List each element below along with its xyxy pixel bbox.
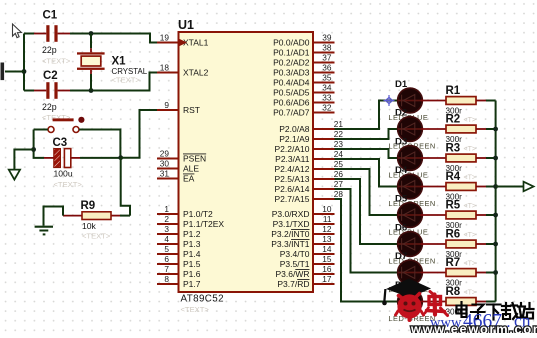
svg-text:D2: D2 xyxy=(395,107,407,118)
wire P2.7 to D8 xyxy=(335,199,398,302)
svg-text:P2.1/A9: P2.1/A9 xyxy=(279,134,310,144)
svg-text:P2.2/A10: P2.2/A10 xyxy=(275,144,310,154)
wire xyxy=(121,158,130,216)
svg-text:P2.4/A12: P2.4/A12 xyxy=(275,164,310,174)
svg-text:P1.6: P1.6 xyxy=(183,269,201,279)
svg-text:1: 1 xyxy=(164,204,169,214)
svg-text:13: 13 xyxy=(322,234,332,244)
output arrow xyxy=(524,182,534,192)
node junction C2/X1 xyxy=(89,88,94,93)
pin P0.7/AD7 (32) xyxy=(273,103,334,118)
LED D4 xyxy=(389,165,447,208)
ic U1 AT89C52 body xyxy=(178,18,313,314)
node junction left rail xyxy=(22,69,27,74)
svg-text:P3.7/RD: P3.7/RD xyxy=(277,279,309,289)
pin P0.2/AD2 (37) xyxy=(273,53,334,68)
svg-text:R6: R6 xyxy=(446,229,461,241)
svg-text:D4: D4 xyxy=(395,165,408,176)
svg-text:P0.0/AD0: P0.0/AD0 xyxy=(273,38,310,48)
svg-text:16: 16 xyxy=(322,264,332,274)
svg-text:P2.5/A13: P2.5/A13 xyxy=(275,174,310,184)
svg-text:RST: RST xyxy=(183,105,200,115)
svg-text:P0.6/AD6: P0.6/AD6 xyxy=(273,98,310,108)
wire xyxy=(34,130,44,158)
svg-text:P0.1/AD1: P0.1/AD1 xyxy=(273,48,310,58)
svg-text:37: 37 xyxy=(322,53,332,63)
pin P0.3/AD3 (36) xyxy=(273,63,334,78)
wire xyxy=(486,214,496,216)
svg-text:P3.3/INT1: P3.3/INT1 xyxy=(271,239,310,249)
svg-text:P0.4/AD4: P0.4/AD4 xyxy=(273,78,310,88)
svg-text:14: 14 xyxy=(322,244,332,254)
svg-text:9: 9 xyxy=(164,100,169,110)
svg-text:17: 17 xyxy=(322,274,332,284)
crystal X1 xyxy=(77,34,148,91)
svg-text:XTAL2: XTAL2 xyxy=(183,68,209,78)
svg-text:P2.6/A14: P2.6/A14 xyxy=(275,184,310,194)
pin P3.5/T1 (15) xyxy=(280,254,335,269)
capacitor C3 xyxy=(44,137,82,189)
wire xyxy=(120,215,130,217)
svg-text:5: 5 xyxy=(164,244,169,254)
svg-text:<T>: <T> xyxy=(464,175,476,182)
svg-text:ALE: ALE xyxy=(183,164,199,174)
svg-text:12: 12 xyxy=(322,224,332,234)
pin RST (9) xyxy=(157,100,200,115)
wire xyxy=(24,90,34,92)
svg-text:www.eeworm.com: www.eeworm.com xyxy=(410,322,537,334)
capacitor C2 xyxy=(34,70,71,122)
svg-text:R5: R5 xyxy=(446,200,461,212)
pin P3.6/WR (16) xyxy=(275,264,334,279)
pin XTAL1 (19) xyxy=(157,33,209,48)
pin P1.2 (3) xyxy=(157,224,201,239)
svg-text:22p: 22p xyxy=(42,45,57,55)
wire xyxy=(79,130,120,157)
svg-text:D5: D5 xyxy=(395,193,408,204)
svg-text:22p: 22p xyxy=(42,102,57,112)
LED D3 xyxy=(389,136,447,179)
wire P2.0 to D1 xyxy=(335,101,398,130)
svg-text:R7: R7 xyxy=(446,257,461,269)
node junction bus xyxy=(493,213,498,218)
mouse cursor xyxy=(13,24,22,38)
watermark url eeworm xyxy=(410,322,537,337)
pin P2.2/A10 (23) xyxy=(275,139,344,154)
svg-text:P3.4/T0: P3.4/T0 xyxy=(280,249,310,259)
wire xyxy=(486,301,496,303)
svg-text:28: 28 xyxy=(334,189,344,199)
node junction bus xyxy=(493,184,498,189)
svg-text:36: 36 xyxy=(322,63,332,73)
svg-text:P1.7: P1.7 xyxy=(183,279,201,289)
wire xyxy=(34,129,48,131)
svg-text:P3.2/INT0: P3.2/INT0 xyxy=(271,229,310,239)
pin P1.4 (5) xyxy=(157,244,201,259)
svg-text:11: 11 xyxy=(323,214,332,224)
resistor R7 xyxy=(446,257,487,288)
watermark bug glyph 2 xyxy=(425,292,448,316)
svg-text:P0.7/AD7: P0.7/AD7 xyxy=(273,108,310,118)
svg-text:4: 4 xyxy=(164,234,169,244)
svg-text:<TEXT>: <TEXT> xyxy=(112,76,141,85)
push button xyxy=(48,117,85,133)
svg-text:D1: D1 xyxy=(395,79,408,90)
wire P2.3 to D4 xyxy=(335,159,398,187)
svg-text:P0.2/AD2: P0.2/AD2 xyxy=(273,58,310,68)
wire xyxy=(5,71,24,73)
svg-text:P2.0/A8: P2.0/A8 xyxy=(279,124,310,134)
node marker (blue origin cross) xyxy=(384,95,395,106)
resistor R6 xyxy=(446,229,487,260)
svg-text:33: 33 xyxy=(322,93,332,103)
pin P1.1/T2EX (2) xyxy=(157,214,224,229)
node junction RST xyxy=(118,155,123,160)
svg-text:21: 21 xyxy=(334,119,344,129)
svg-text:R8: R8 xyxy=(446,286,461,298)
svg-text:24: 24 xyxy=(334,149,344,159)
pin P2.7/A15 (28) xyxy=(275,189,344,204)
node junction bus xyxy=(493,242,498,247)
svg-text:3: 3 xyxy=(164,224,169,234)
svg-text:10k: 10k xyxy=(82,221,97,231)
pin P0.1/AD1 (38) xyxy=(273,43,334,58)
node junction C1/X1 xyxy=(89,31,94,36)
svg-text:26: 26 xyxy=(334,169,344,179)
svg-text:P1.3: P1.3 xyxy=(183,239,201,249)
svg-text:19: 19 xyxy=(160,33,170,43)
resistor R8 xyxy=(446,286,487,317)
svg-text:P3.6/WR: P3.6/WR xyxy=(275,269,309,279)
wire P2.5 to D6 xyxy=(335,179,398,244)
wire xyxy=(486,243,496,245)
svg-text:P3.5/T1: P3.5/T1 xyxy=(280,259,310,269)
pin XTAL2 (18) xyxy=(157,63,209,78)
svg-text:<T>: <T> xyxy=(464,117,476,124)
svg-text:38: 38 xyxy=(322,43,332,53)
svg-text:P1.4: P1.4 xyxy=(183,249,201,259)
svg-text:PSEN: PSEN xyxy=(183,154,206,164)
svg-text:U1: U1 xyxy=(178,18,194,32)
pin P2.1/A9 (22) xyxy=(279,129,343,144)
svg-text:P1.2: P1.2 xyxy=(183,229,201,239)
svg-text:15: 15 xyxy=(322,254,332,264)
wire xyxy=(24,33,34,35)
svg-text:32: 32 xyxy=(322,103,332,113)
svg-text:<T>: <T> xyxy=(464,290,476,297)
svg-text:EA: EA xyxy=(183,174,195,184)
pin EA (31) xyxy=(157,169,195,184)
pin P2.3/A11 (24) xyxy=(275,149,343,164)
node junction bus xyxy=(493,127,498,132)
svg-text:34: 34 xyxy=(322,83,332,93)
LED D5 xyxy=(389,193,447,236)
pin P0.0/AD0 (39) xyxy=(273,33,334,48)
wire xyxy=(14,150,33,170)
resistor R4 xyxy=(446,171,487,202)
edge component (clipped) xyxy=(1,63,5,81)
resistor R3 xyxy=(446,143,487,174)
wire P2.6 to D7 xyxy=(335,189,398,273)
svg-text:R9: R9 xyxy=(81,200,96,212)
pin P3.7/RD (17) xyxy=(277,274,334,289)
pin P0.5/AD5 (34) xyxy=(273,83,334,98)
pin P3.1/TXD (11) xyxy=(273,214,335,229)
pin P1.6 (7) xyxy=(157,264,201,279)
svg-text:P0.5/AD5: P0.5/AD5 xyxy=(273,88,310,98)
watermark graduation cap xyxy=(382,279,431,306)
svg-text:39: 39 xyxy=(322,33,332,43)
pin P3.3/INT1 (13) xyxy=(271,234,334,249)
svg-text:18: 18 xyxy=(160,63,170,73)
svg-text:<T>: <T> xyxy=(464,146,476,153)
wire xyxy=(23,34,25,91)
pin P1.3 (4) xyxy=(157,234,201,249)
svg-text:<T>: <T> xyxy=(464,261,476,268)
wire xyxy=(70,34,157,43)
pin P3.4/T0 (14) xyxy=(280,244,335,259)
svg-text:C3: C3 xyxy=(53,137,68,149)
pin P1.0/T2 (1) xyxy=(157,204,213,219)
wire P2.2 to D3 xyxy=(335,149,398,158)
resistor R2 xyxy=(446,114,487,145)
svg-text:R3: R3 xyxy=(446,143,461,155)
LED D1 xyxy=(389,79,447,122)
svg-text:27: 27 xyxy=(334,179,344,189)
svg-text:<T>: <T> xyxy=(464,232,476,239)
svg-text:C2: C2 xyxy=(43,70,58,82)
svg-text:29: 29 xyxy=(160,149,170,159)
svg-text:R2: R2 xyxy=(446,114,461,126)
svg-text:P3.1/TXD: P3.1/TXD xyxy=(273,219,310,229)
svg-text:22: 22 xyxy=(334,129,344,139)
svg-text:R4: R4 xyxy=(446,171,461,183)
ground xyxy=(9,170,20,180)
watermark url 4667 xyxy=(430,311,531,333)
LED D7 xyxy=(389,251,447,294)
wire xyxy=(486,272,496,274)
pin P2.0/A8 (21) xyxy=(279,119,343,134)
svg-text:7: 7 xyxy=(164,264,169,274)
pin P0.6/AD6 (33) xyxy=(273,93,334,108)
capacitor C1 xyxy=(34,10,71,66)
svg-text:P2.7/A15: P2.7/A15 xyxy=(275,194,310,204)
svg-text:AT89C52: AT89C52 xyxy=(181,294,224,305)
pin P2.5/A13 (26) xyxy=(275,169,344,184)
node junction bus xyxy=(493,156,498,161)
svg-text:D3: D3 xyxy=(395,136,407,147)
svg-text:100u: 100u xyxy=(54,169,73,179)
wire xyxy=(486,186,496,188)
resistor R1 xyxy=(446,85,487,116)
node junction gnd branch xyxy=(31,147,36,152)
svg-text:P1.1/T2EX: P1.1/T2EX xyxy=(183,219,224,229)
wire xyxy=(80,157,121,159)
watermark text dianzi xiazaizhan xyxy=(457,302,534,320)
svg-text:P1.0/T2: P1.0/T2 xyxy=(183,209,213,219)
wire to output arrow xyxy=(496,186,524,188)
svg-text:10: 10 xyxy=(322,204,332,214)
svg-text:CRYSTAL: CRYSTAL xyxy=(112,67,148,76)
svg-text:6: 6 xyxy=(164,254,169,264)
ground xyxy=(35,227,53,235)
wire xyxy=(486,100,496,102)
svg-text:R1: R1 xyxy=(446,85,461,97)
resistor R5 xyxy=(446,200,487,231)
watermark bug glyph 1 xyxy=(396,294,424,321)
svg-text:P3.0/RXD: P3.0/RXD xyxy=(272,209,310,219)
pin P2.6/A14 (27) xyxy=(275,179,344,194)
pin ALE (30) xyxy=(157,159,199,174)
pin P1.5 (6) xyxy=(157,254,201,269)
pin P1.7 (8) xyxy=(157,274,201,289)
svg-text:<TEXT>: <TEXT> xyxy=(54,180,83,189)
LED D2 xyxy=(389,107,447,150)
pin P3.2/INT0 (12) xyxy=(271,224,334,239)
wire P2.1 to D2 xyxy=(335,129,398,139)
wire xyxy=(70,73,157,91)
svg-text:<T>: <T> xyxy=(464,203,476,210)
svg-text:<TEXT>: <TEXT> xyxy=(42,57,71,66)
LED D8 xyxy=(389,280,447,323)
svg-text:P1.5: P1.5 xyxy=(183,259,201,269)
svg-text:8: 8 xyxy=(164,274,169,284)
svg-text:<TEXT>: <TEXT> xyxy=(181,305,210,314)
svg-text:X1: X1 xyxy=(112,56,127,68)
pin P3.0/RXD (10) xyxy=(272,204,335,219)
svg-text:30: 30 xyxy=(160,159,170,169)
pin P2.4/A12 (25) xyxy=(275,159,344,174)
svg-text:25: 25 xyxy=(334,159,344,169)
node junction bus xyxy=(493,270,498,275)
svg-text:C1: C1 xyxy=(43,10,58,22)
wire xyxy=(486,157,496,159)
resistor R9 xyxy=(63,200,120,241)
svg-text:D6: D6 xyxy=(395,222,407,233)
svg-text:35: 35 xyxy=(322,73,332,83)
svg-text:23: 23 xyxy=(334,139,344,149)
pin P0.4/AD4 (35) xyxy=(273,73,334,88)
svg-text:<TEXT>: <TEXT> xyxy=(82,232,111,241)
wire output bus xyxy=(495,101,497,302)
pin PSEN (29) xyxy=(157,149,206,164)
wire xyxy=(121,110,157,158)
svg-text:2: 2 xyxy=(164,214,169,224)
svg-text:31: 31 xyxy=(160,169,170,179)
svg-text:P2.3/A11: P2.3/A11 xyxy=(275,154,310,164)
svg-text:D7: D7 xyxy=(395,251,407,262)
wire xyxy=(486,128,496,130)
LED D6 xyxy=(389,222,447,265)
wire xyxy=(44,207,64,226)
svg-text:P0.3/AD3: P0.3/AD3 xyxy=(273,68,310,78)
wire P2.4 to D5 xyxy=(335,169,398,215)
